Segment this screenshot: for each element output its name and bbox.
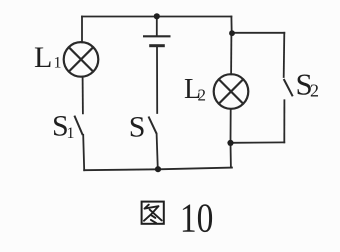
switch S blade <box>149 117 157 134</box>
node: bottom junction dot <box>155 166 161 172</box>
wire: L1 bottom lead to switch S1 <box>82 77 84 114</box>
node: top junction dot <box>154 13 160 19</box>
wire: L2 bottom lead to node C <box>230 109 232 143</box>
svg-text:1: 1 <box>54 55 62 72</box>
svg-text:2: 2 <box>198 86 207 105</box>
wire: left branch down to lamp L1 <box>81 17 83 43</box>
wire: bottom horizontal bus <box>84 168 232 171</box>
wire: middle branch, top node to battery <box>156 16 158 35</box>
wire: S2 branch down to switch <box>283 33 286 77</box>
wire: top horizontal bus <box>82 16 231 18</box>
wire: S2 branch bottom horizontal to node C <box>232 141 284 143</box>
wire: S2 branch top horizontal <box>232 32 284 34</box>
wire: node C down to bottom-right corner <box>231 143 232 168</box>
switch S2 blade <box>284 79 293 96</box>
wire: below S to bottom node <box>157 134 158 169</box>
wire: top-right corner down to node B <box>230 17 232 34</box>
svg-text:L: L <box>34 41 52 74</box>
wire: node B down to lamp L2 <box>230 33 232 74</box>
svg-text:S: S <box>129 110 146 143</box>
node C: right-bottom junction dot <box>227 140 233 146</box>
svg-text:2: 2 <box>310 81 319 101</box>
lamp L2 <box>214 74 249 109</box>
svg-text:10: 10 <box>180 195 214 241</box>
lamp L1 <box>64 42 99 77</box>
switch S1 blade <box>74 116 82 135</box>
wire: below S2 down <box>283 100 285 142</box>
battery cell <box>143 36 171 45</box>
wire: below S1 to bottom-left corner <box>83 135 84 170</box>
caption: hanzi TU (figure) drawn as strokes <box>142 202 164 224</box>
node B: right-top junction dot <box>229 30 235 36</box>
svg-text:1: 1 <box>67 125 75 142</box>
wire: battery to switch S <box>156 47 158 113</box>
